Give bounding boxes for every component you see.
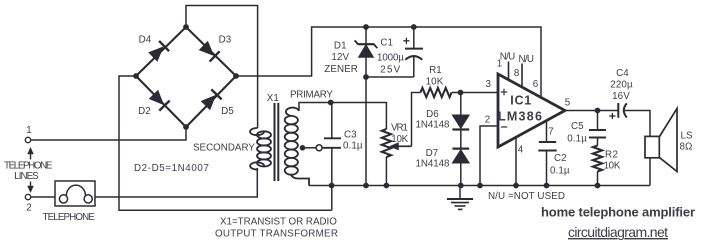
node: bridge right vertex bbox=[233, 73, 239, 79]
svg-text:7: 7 bbox=[548, 126, 554, 137]
wire C4 to speaker bbox=[624, 111, 650, 137]
IC1 LM386 op-amp triangle bbox=[498, 74, 565, 147]
node C2 ground bbox=[544, 183, 550, 189]
pin 1 stub bbox=[508, 62, 510, 81]
node rail/C1 bbox=[411, 24, 417, 30]
plus sign input bbox=[501, 89, 508, 96]
svg-text:N/U: N/U bbox=[519, 54, 535, 65]
svg-text:0.1µ: 0.1µ bbox=[550, 165, 570, 176]
wire VR1 bottom to ground rail bbox=[385, 157, 387, 186]
diode D5 bbox=[202, 89, 222, 109]
svg-text:1: 1 bbox=[26, 125, 32, 136]
minus sign input bbox=[501, 126, 507, 128]
wire tap to terminal circle bbox=[303, 147, 316, 149]
node pin2 ground bbox=[477, 183, 483, 189]
svg-text:R1: R1 bbox=[429, 65, 442, 76]
diode D3 bbox=[200, 42, 220, 62]
wire top-left loop: bridge top vertex to transformer secondary top bbox=[186, 6, 258, 129]
wire C3 column bbox=[331, 103, 333, 211]
transformer X1 core bbox=[275, 103, 279, 181]
node output / C5 bbox=[595, 108, 601, 114]
zener diode D1 bbox=[355, 27, 378, 77]
telephone set box bbox=[55, 181, 95, 206]
svg-text:10K: 10K bbox=[426, 76, 444, 87]
wire terminal 2 to telephone set bbox=[31, 196, 55, 198]
svg-text:12V: 12V bbox=[331, 52, 349, 63]
capacitor C5 bbox=[589, 111, 606, 146]
svg-text:VR1: VR1 bbox=[391, 123, 408, 134]
ground rail bbox=[309, 185, 650, 187]
svg-text:D1: D1 bbox=[334, 41, 347, 52]
svg-text:LS: LS bbox=[681, 131, 694, 142]
svg-text:8: 8 bbox=[514, 68, 520, 79]
wire bridge left vertex down to bottom return wire bbox=[119, 76, 332, 210]
svg-text:LINES: LINES bbox=[14, 171, 39, 182]
svg-text:C5: C5 bbox=[571, 121, 584, 132]
svg-text:D4: D4 bbox=[139, 35, 152, 46]
telephone lines arrows bbox=[28, 148, 34, 193]
transformer X1 primary coil bbox=[285, 108, 309, 186]
svg-text:3: 3 bbox=[486, 79, 492, 90]
potentiometer VR1 bbox=[382, 129, 391, 157]
wire IC pin 7 to C2 bbox=[546, 121, 548, 142]
wire IC pin 5 output bbox=[565, 110, 618, 112]
svg-text:home telephone amplifier: home telephone amplifier bbox=[541, 205, 695, 220]
svg-text:1N4148: 1N4148 bbox=[416, 159, 450, 170]
node rail/zener bbox=[363, 24, 369, 30]
svg-text:16V: 16V bbox=[612, 91, 630, 102]
svg-text:0.1µ: 0.1µ bbox=[343, 140, 363, 151]
ground symbol bbox=[447, 186, 473, 210]
svg-text:PRIMARY: PRIMARY bbox=[290, 89, 333, 100]
primary tap junction dot bbox=[300, 145, 306, 151]
svg-text:LM386: LM386 bbox=[498, 110, 542, 124]
wire R2 to ground rail bbox=[597, 172, 599, 186]
capacitor C1 bbox=[403, 27, 423, 77]
terminal 1 bbox=[25, 137, 30, 142]
svg-text:TELEPHONE: TELEPHONE bbox=[4, 160, 53, 171]
svg-text:5: 5 bbox=[565, 97, 571, 108]
svg-text:25V: 25V bbox=[380, 64, 400, 75]
VR1 wiper arrow and wire to R1 bbox=[390, 93, 421, 151]
svg-text:D3: D3 bbox=[219, 35, 232, 46]
node: bridge top vertex bbox=[183, 24, 189, 30]
wire IC pin 4 to ground bbox=[515, 138, 517, 186]
loudspeaker LS bbox=[645, 109, 677, 186]
svg-text:220µ: 220µ bbox=[610, 80, 633, 91]
wire bridge right vertex to positive rail and IC pin 6 bbox=[236, 27, 541, 97]
svg-text:10K: 10K bbox=[391, 134, 408, 145]
capacitor C2 bbox=[538, 142, 556, 186]
capacitor C3 bottom plate / tap wire bbox=[322, 147, 341, 149]
node VR1 bottom bbox=[384, 183, 390, 189]
wire zener anode node down to ground rail bbox=[365, 77, 367, 186]
svg-text:D5: D5 bbox=[221, 106, 234, 117]
diode D6 bbox=[452, 93, 469, 130]
svg-text:TELEPHONE: TELEPHONE bbox=[43, 212, 96, 223]
node pin4 ground bbox=[513, 183, 519, 189]
svg-text:2: 2 bbox=[485, 114, 491, 125]
bridge diamond edges bbox=[136, 27, 236, 127]
svg-text:6: 6 bbox=[533, 79, 539, 90]
wire R1 to IC pin 3 bbox=[452, 92, 498, 94]
capacitor C3 top plate bbox=[324, 137, 341, 139]
svg-text:OUTPUT TRANSFORMER: OUTPUT TRANSFORMER bbox=[215, 228, 338, 239]
node: bridge bottom vertex bbox=[183, 124, 189, 130]
svg-text:C4: C4 bbox=[616, 68, 629, 79]
svg-text:8Ω: 8Ω bbox=[680, 142, 693, 153]
svg-text:D2-D5=1N4007: D2-D5=1N4007 bbox=[134, 163, 209, 174]
capacitor C4 bbox=[609, 103, 627, 119]
node zener column bbox=[363, 183, 369, 189]
svg-text:C1: C1 bbox=[380, 38, 393, 49]
svg-text:1000µ: 1000µ bbox=[377, 52, 404, 63]
svg-text:SECONDARY: SECONDARY bbox=[193, 143, 255, 154]
node R1 / D6 bbox=[458, 90, 464, 96]
node D7 / ground symbol bbox=[458, 183, 464, 189]
svg-text:D2: D2 bbox=[138, 106, 151, 117]
svg-text:ZENER: ZENER bbox=[324, 64, 358, 75]
node zener/C1 bottom bbox=[363, 74, 369, 80]
wire primary top to VR1 top bbox=[299, 103, 386, 130]
node R2 ground bbox=[595, 183, 601, 189]
svg-text:X1: X1 bbox=[267, 93, 279, 104]
tap terminal open circle bbox=[316, 145, 322, 151]
diode D4 bbox=[149, 41, 169, 61]
transformer X1 secondary coil bbox=[250, 128, 271, 170]
svg-text:N/U =NOT USED: N/U =NOT USED bbox=[488, 191, 565, 202]
resistor R2 bbox=[593, 146, 602, 172]
svg-text:2: 2 bbox=[26, 203, 32, 214]
diode D7 bbox=[452, 130, 469, 186]
wire telephone line 1 to bridge bottom vertex bbox=[31, 127, 186, 140]
wire C1 bottom to zener node bbox=[366, 76, 414, 78]
svg-text:1: 1 bbox=[497, 59, 503, 70]
svg-text:0.1µ: 0.1µ bbox=[567, 133, 587, 144]
svg-text:D6: D6 bbox=[426, 109, 439, 120]
resistor R1 bbox=[421, 88, 452, 97]
svg-text:4: 4 bbox=[518, 144, 524, 155]
node primary-top / C3 bbox=[328, 100, 334, 106]
svg-text:C2: C2 bbox=[554, 153, 567, 164]
svg-text:1N4148: 1N4148 bbox=[416, 119, 450, 130]
diode D2 bbox=[150, 91, 170, 111]
svg-text:X1=TRANSIST OR RADIO: X1=TRANSIST OR RADIO bbox=[220, 217, 337, 228]
terminal 2 bbox=[25, 194, 30, 199]
svg-text:C3: C3 bbox=[344, 130, 357, 141]
svg-text:IC1: IC1 bbox=[510, 94, 531, 108]
svg-text:10K: 10K bbox=[604, 161, 621, 172]
wire telephone set to secondary bottom bbox=[95, 168, 257, 197]
node C3/return bbox=[329, 183, 335, 189]
pin 8 stub bbox=[521, 64, 523, 88]
svg-text:R2: R2 bbox=[605, 150, 618, 161]
svg-text:D7: D7 bbox=[426, 148, 439, 159]
wire IC pin 2 to ground bbox=[480, 126, 498, 186]
node: bridge left vertex bbox=[133, 73, 139, 79]
svg-text:circuitdiagram.net: circuitdiagram.net bbox=[568, 224, 668, 240]
